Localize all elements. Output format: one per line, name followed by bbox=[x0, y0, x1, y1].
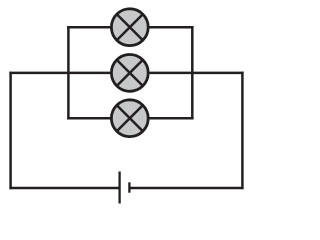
wire outer-right vertical bbox=[241, 72, 244, 190]
wire middle branch right bbox=[149, 72, 244, 75]
wire bottom left to battery bbox=[9, 187, 119, 190]
battery cell BT1 bbox=[120, 172, 130, 204]
wire middle branch left bbox=[9, 72, 111, 75]
wire inner-right vertical rail bbox=[191, 26, 194, 120]
lamp L2 bbox=[111, 55, 148, 92]
wire bottom branch left bbox=[67, 117, 111, 120]
lamp L3 bbox=[111, 100, 148, 137]
wire top branch right bbox=[149, 26, 194, 29]
wire top branch left bbox=[67, 26, 111, 29]
lamp L1 bbox=[111, 9, 148, 46]
wire bottom battery to right bbox=[129, 187, 243, 190]
battery short plate bbox=[128, 182, 130, 192]
wire inner-left vertical rail bbox=[67, 26, 70, 120]
wire outer-left vertical bbox=[9, 72, 12, 190]
wire bottom branch right bbox=[149, 117, 194, 120]
battery long plate bbox=[118, 172, 120, 204]
